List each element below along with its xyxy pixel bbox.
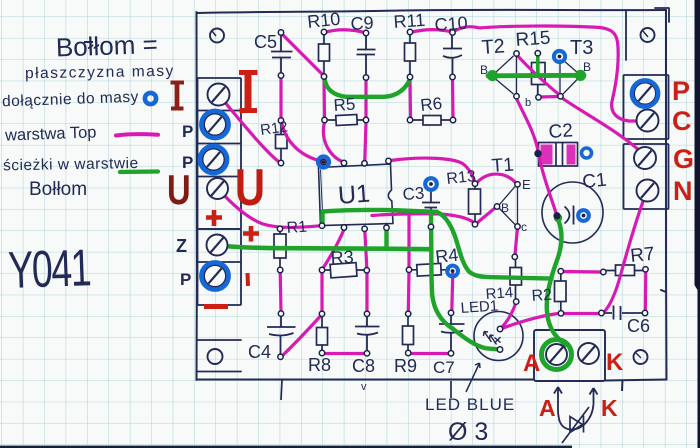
resistor R15: [532, 55, 546, 96]
screw right N: [637, 180, 659, 202]
wire R10.top to C9.top: [324, 30, 366, 33]
A/K terminal block: [534, 330, 605, 381]
svg-text:A: A: [539, 395, 556, 421]
node C1 green blob: [554, 214, 562, 222]
maroon I (left of terminal): [171, 83, 185, 109]
mounting hole bottom-left: [208, 349, 223, 364]
capacitor C5: [271, 34, 293, 74]
red U (big, right of terminal): [235, 158, 265, 217]
svg-text:T3: T3: [570, 37, 593, 59]
resistor R6: [412, 116, 452, 126]
svg-text:E: E: [522, 177, 531, 192]
svg-text:C9: C9: [350, 12, 374, 34]
wire screw N to C6.left: [605, 193, 647, 312]
wire R3.left to R8.top: [320, 273, 323, 313]
left terminal block upper body: [198, 78, 242, 229]
node C1 plus pin: [554, 213, 560, 219]
screw terminal U: [207, 178, 228, 199]
svg-text:C8: C8: [352, 356, 375, 376]
screw AK left (A): [546, 344, 567, 365]
wire R13.top to T1.E: [477, 174, 516, 182]
mounting hole bottom-right: [634, 350, 648, 364]
via ring screw P2: [201, 111, 228, 138]
bottom-left mounting bracket: [197, 340, 241, 372]
left terminal divider lines: [198, 111, 240, 263]
node T2.B blob: [487, 70, 498, 81]
arrow lead A: [554, 387, 562, 404]
wire R4.left up to node row: [407, 215, 410, 268]
svg-text:G: G: [673, 144, 694, 174]
svg-text:R3: R3: [330, 247, 354, 268]
capacitor C9: [357, 35, 376, 76]
red I (big, right of terminal): [239, 73, 258, 111]
svg-text:R10: R10: [306, 9, 341, 32]
node C2 left pin: [535, 151, 541, 157]
wire R9.bottom to C7.bottom: [410, 352, 450, 355]
svg-text:ścieżki w warstwie: ścieżki w warstwie: [3, 155, 139, 174]
green ring around screw A: [542, 340, 572, 370]
svg-text:C4: C4: [248, 342, 271, 362]
via ring right screw P: [632, 80, 658, 106]
photo dark bottom edge: [0, 446, 572, 448]
svg-text:R7: R7: [629, 244, 655, 267]
via legend example: [145, 93, 156, 104]
screw right G: [634, 147, 656, 169]
wire node row to R13.bottom: [372, 214, 474, 223]
svg-text:K: K: [606, 349, 624, 376]
svg-text:Bołłom: Bołłom: [29, 179, 87, 200]
wire T2.top to T3.bottom: [518, 56, 560, 95]
wire R8.bottom to C8.bottom: [324, 352, 366, 355]
capacitor C3: [422, 190, 440, 225]
svg-text:Bołłom =: Bołłom =: [55, 29, 158, 63]
svg-text:R15: R15: [515, 28, 551, 51]
svg-text:P: P: [182, 122, 193, 141]
wire C9.bottom to R5.right: [364, 79, 367, 118]
wire U1.pin4top to R13.top: [391, 158, 475, 181]
svg-text:U: U: [167, 166, 191, 213]
wire R15.bottom to T3.bottom: [540, 95, 558, 99]
via U1.pin1: [318, 156, 329, 167]
top-right corner bracket: [626, 8, 669, 60]
node T3.B blob: [575, 70, 586, 81]
resistor R9: [403, 316, 414, 352]
screw terminal I: [208, 84, 230, 106]
wire T3.bottom to screw G: [562, 98, 645, 156]
wire screw Z across R1 to vertical branch: [218, 246, 429, 250]
wire U1.pin2bottom to R3.left: [324, 230, 345, 268]
wire LED1.anode to R2.bottom: [502, 314, 559, 329]
svg-text:warstwa Top: warstwa Top: [4, 123, 97, 144]
capacitor C10: [443, 35, 462, 77]
wire C4.bottom to R8.top junction: [282, 316, 321, 356]
svg-text:R11: R11: [393, 10, 426, 32]
note: YO41: [7, 238, 91, 299]
resistor R2: [555, 273, 567, 312]
wire C6.left to R2.bottom: [564, 312, 600, 315]
PCB outline top edge: [197, 10, 666, 13]
svg-text:płaszczyzna masy: płaszczyzna masy: [25, 63, 175, 83]
wire arc down right side to flat run: [437, 212, 552, 279]
screw right P: [634, 83, 656, 105]
wire T2.B to T3.B: [488, 73, 584, 78]
via C1 inner: [578, 210, 589, 221]
svg-text:R5: R5: [333, 95, 356, 115]
svg-text:B: B: [480, 63, 488, 77]
wire T1.B to R13.bottom: [478, 208, 496, 223]
wire screw U to R1.top to U1.pin1bottom: [220, 191, 320, 227]
diode symbol: [562, 407, 589, 443]
via R4.right: [447, 266, 458, 277]
wire R5.left to U1.pin2top: [323, 122, 342, 162]
via center dots: [322, 55, 586, 273]
wire U1.pin3bottom to R3.right: [365, 231, 367, 268]
svg-text:B: B: [501, 201, 509, 215]
capacitor C2: [539, 143, 578, 167]
wire U1.pin1bottom up and across to arc: [323, 210, 438, 226]
svg-text:R9: R9: [394, 356, 417, 376]
wire C10.top over transistors to screw C: [454, 26, 645, 121]
svg-text:Y041: Y041: [7, 238, 91, 299]
svg-text:U1: U1: [337, 180, 371, 210]
svg-text:B: B: [583, 60, 591, 74]
svg-text:U: U: [235, 158, 265, 217]
svg-text:R2: R2: [531, 287, 553, 305]
svg-text:b: b: [525, 97, 531, 109]
wire T1.c to R14.top: [515, 229, 518, 257]
wire R4.left to R9.top: [407, 272, 411, 313]
svg-text:R4: R4: [434, 245, 459, 267]
svg-text:Z: Z: [176, 236, 187, 256]
tick below C4: [281, 380, 282, 400]
photo dark right edge: [695, 0, 700, 448]
wire C1.minus down to A screw: [547, 220, 566, 346]
svg-text:R13: R13: [446, 168, 477, 188]
wire R5.right to U1.pin3top: [365, 122, 366, 161]
resistor R8: [317, 316, 328, 352]
capacitor C6: [604, 306, 643, 321]
svg-text:T2: T2: [481, 35, 506, 59]
wire U1.pin4bottom stub to Z-run: [384, 230, 388, 247]
svg-text:P: P: [180, 270, 191, 289]
svg-text:C10: C10: [434, 13, 468, 35]
right terminal block G/N: [624, 144, 669, 209]
wire R2.top to R7.left pin: [563, 270, 603, 274]
wire R11.top to C10.top: [410, 30, 452, 33]
left terminal block lower body: [198, 229, 242, 305]
transistor T2: [495, 56, 517, 94]
svg-text:v: v: [361, 381, 367, 393]
via T3.top: [554, 51, 565, 62]
red minus (bottom of terminal): [204, 304, 228, 309]
wire C10.bottom to R6.right: [451, 78, 455, 118]
screw terminal P2: [204, 114, 226, 136]
resistor R7: [606, 265, 645, 276]
right terminal block P/C: [624, 75, 669, 139]
PCB outline left edge: [195, 12, 197, 380]
PCB outline right edge: [661, 10, 667, 380]
component pin pads: [277, 29, 648, 359]
resistor R3: [324, 263, 365, 278]
wire R10.bottom to R11.bottom (ground dip): [325, 79, 410, 97]
svg-text:R8: R8: [308, 355, 331, 375]
svg-text:C7: C7: [433, 358, 455, 377]
svg-text:R6: R6: [419, 94, 443, 115]
resistor R5: [326, 114, 364, 125]
screw terminal Z: [207, 235, 228, 256]
wire R3.right to C8.top: [365, 273, 368, 313]
tick below C7: [450, 381, 452, 398]
svg-text:LED BLUE: LED BLUE: [425, 395, 515, 414]
via C3.top: [425, 178, 437, 190]
mounting hole top-right: [641, 28, 655, 42]
wire R11.bottom to R6.left: [408, 78, 412, 118]
capacitor C1: [542, 182, 603, 243]
via C2.right: [582, 148, 592, 158]
wire R4.right via to C7.top: [452, 274, 453, 312]
wire R15.top stub: [536, 56, 540, 75]
diode loop wire: [558, 404, 594, 430]
svg-text:P: P: [672, 76, 690, 106]
red plus (right of terminal): [243, 226, 259, 242]
legend green stroke (Bottom): [120, 169, 158, 174]
wire C5.top to R10.bottom: [282, 34, 323, 75]
svg-text:C6: C6: [627, 316, 650, 336]
capacitor C7: [439, 315, 465, 353]
transistor T3: [560, 60, 579, 95]
resistor R12: [276, 122, 288, 162]
svg-text:c: c: [521, 220, 527, 234]
via ring screw P3: [200, 146, 227, 173]
svg-text:C3: C3: [402, 184, 425, 204]
svg-text:C: C: [672, 106, 692, 136]
transistor T1: [500, 187, 518, 225]
svg-text:K: K: [601, 395, 618, 421]
resistor R13: [469, 186, 481, 224]
svg-text:C5: C5: [254, 32, 277, 52]
svg-text:R1: R1: [286, 219, 308, 237]
arrow lead K: [590, 388, 598, 404]
op-amp U1 body: [319, 164, 394, 226]
resistor R10: [319, 34, 330, 75]
PCB outline bottom edge: [197, 379, 667, 380]
wire R12.top to U1.pin1 via: [282, 122, 321, 162]
svg-text:T1: T1: [491, 154, 515, 176]
screw AK right (K): [578, 343, 599, 364]
screw terminal P3: [203, 149, 225, 171]
svg-text:A: A: [523, 350, 540, 377]
wire C5.bottom to R12.top: [279, 77, 282, 119]
svg-text:Ø 3: Ø 3: [448, 418, 488, 446]
wire vertical branch down to LED1.cathode: [431, 213, 498, 349]
resistor R14: [510, 259, 522, 301]
wire R7.right to C6.right: [644, 271, 648, 311]
via ring screw P6: [201, 262, 228, 289]
wire T2.bottom to C2.left to C1.plus: [517, 99, 557, 214]
svg-text:N: N: [673, 176, 693, 206]
mounting hole top-left: [210, 29, 224, 43]
red dash (right of P screw): [246, 273, 251, 286]
capacitor C4: [267, 316, 296, 357]
svg-text:C2: C2: [548, 120, 574, 143]
svg-text:LED1: LED1: [460, 297, 499, 317]
wire R1.bottom to C4.top: [279, 272, 283, 313]
wire screw I to R12.bottom: [221, 97, 279, 162]
tick right of AK block: [621, 380, 624, 391]
resistor R11: [405, 34, 416, 76]
screw terminal P6: [204, 265, 226, 287]
resistor R4: [411, 263, 450, 276]
red plus (in terminal): [206, 210, 222, 226]
capacitor C8: [355, 316, 380, 353]
wire R10.bottom to R5.left: [322, 78, 326, 118]
maroon U (left of terminal): [167, 166, 191, 213]
LED LED1 body: [474, 312, 523, 361]
wire R14.bottom to LED1.anode: [502, 303, 517, 328]
arrow from LED BLUE to LED1: [466, 363, 480, 392]
svg-text:C1: C1: [581, 170, 607, 193]
resistor R1: [274, 231, 286, 269]
screw right C: [637, 110, 659, 132]
svg-text:P: P: [182, 153, 193, 172]
legend magenta stroke (warstwa Top): [116, 134, 158, 135]
